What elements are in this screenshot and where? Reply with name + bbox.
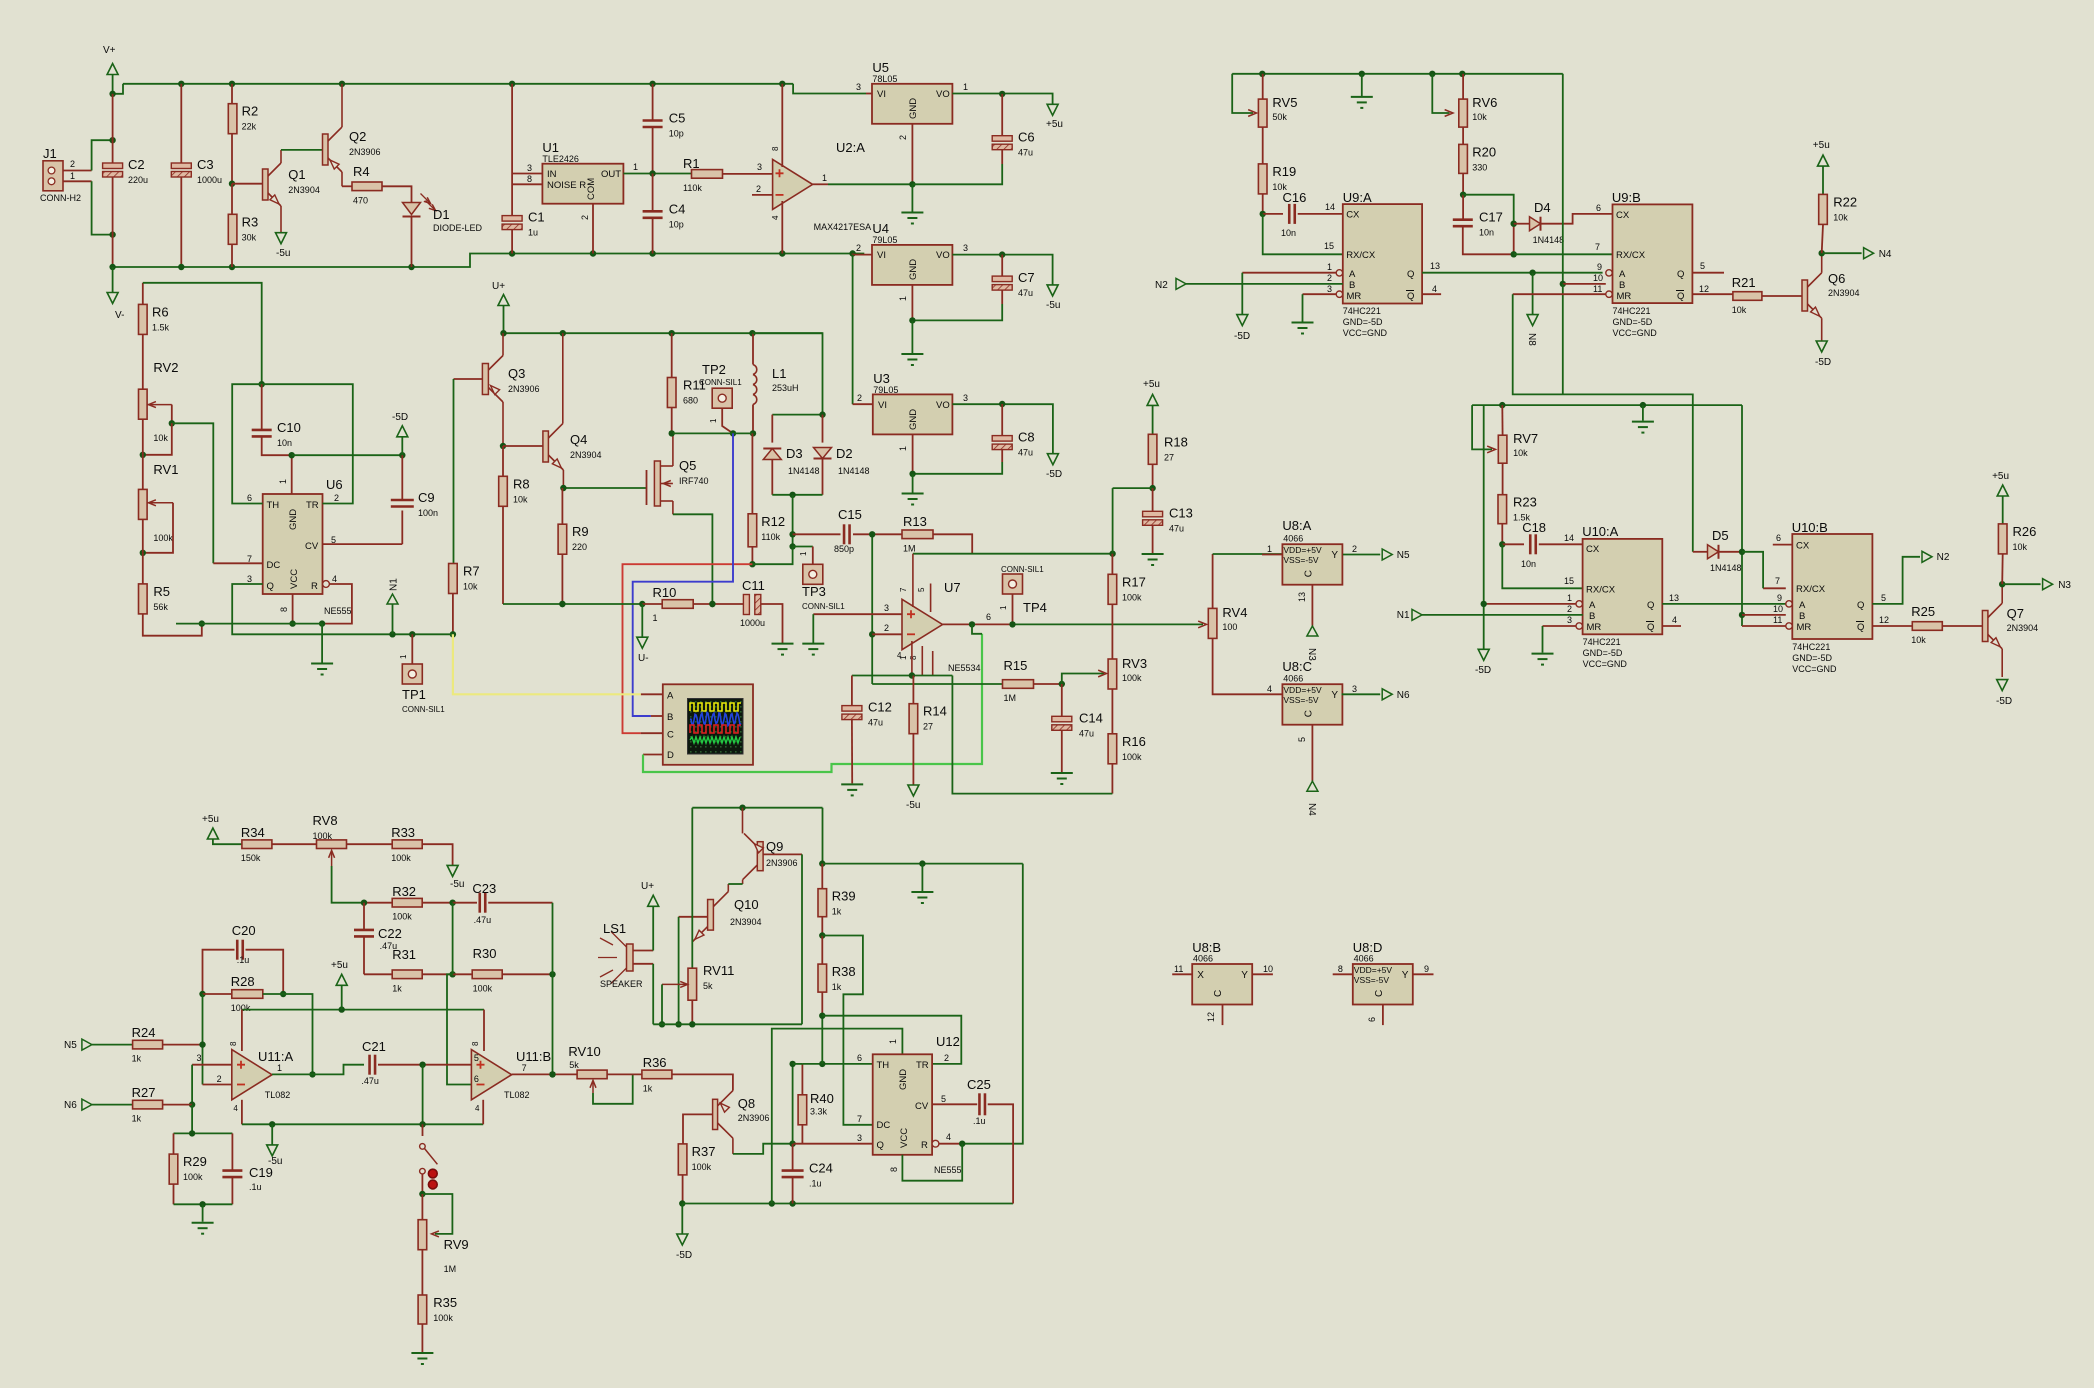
- wire: [952, 255, 1052, 285]
- junction: [361, 900, 367, 906]
- wire: [171, 405, 173, 424]
- svg-text:2: 2: [856, 243, 861, 253]
- junction: [339, 1006, 345, 1012]
- svg-text:CONN-SIL1: CONN-SIL1: [1001, 565, 1044, 574]
- svg-text:-5D: -5D: [392, 412, 408, 423]
- wire: [681, 1204, 683, 1235]
- wire: [813, 183, 828, 185]
- junction: [1259, 71, 1265, 77]
- svg-text:C20: C20: [232, 923, 256, 938]
- wire: [173, 1184, 175, 1204]
- power flag +5u: [202, 814, 219, 839]
- svg-text:1N4148: 1N4148: [838, 466, 870, 476]
- potentiometer RV2: [139, 360, 179, 443]
- svg-text:1: 1: [898, 296, 908, 301]
- label U8:B: [1192, 940, 1221, 955]
- svg-text:C13: C13: [1169, 505, 1193, 520]
- op-amp U7: [902, 580, 981, 673]
- svg-text:TH: TH: [877, 1060, 890, 1071]
- wire: [112, 94, 114, 163]
- svg-text:N5: N5: [64, 1040, 77, 1051]
- wire: [422, 1194, 452, 1234]
- wire: [792, 495, 794, 547]
- svg-text:8: 8: [909, 655, 918, 660]
- svg-text:6: 6: [986, 612, 991, 622]
- capacitor C13: [1143, 505, 1193, 533]
- svg-text:2N3906: 2N3906: [738, 1113, 770, 1123]
- svg-text:R: R: [311, 581, 318, 592]
- wire: [872, 683, 1002, 685]
- junction: [199, 1041, 205, 1047]
- svg-text:R5: R5: [153, 584, 170, 599]
- svg-text:RV4: RV4: [1222, 605, 1247, 620]
- wire: [943, 623, 1013, 625]
- junction: [869, 631, 875, 637]
- svg-text:2: 2: [580, 215, 590, 220]
- wire: [563, 487, 646, 489]
- svg-text:R28: R28: [231, 974, 255, 989]
- svg-text:U7: U7: [944, 580, 961, 595]
- wire: [1414, 973, 1434, 975]
- svg-text:R3: R3: [242, 214, 259, 229]
- svg-text:A: A: [667, 691, 674, 702]
- svg-text:GND=-5D: GND=-5D: [1613, 317, 1653, 327]
- wire: [1152, 525, 1154, 553]
- svg-text:-5D: -5D: [1815, 357, 1831, 368]
- svg-text:R35: R35: [433, 1295, 457, 1310]
- pin number TP4: [999, 605, 1008, 610]
- wire: [1422, 293, 1441, 295]
- junction: [559, 601, 565, 607]
- svg-text:R4: R4: [353, 164, 370, 179]
- junction: [649, 250, 655, 256]
- wire: [342, 185, 352, 187]
- wire: [911, 184, 913, 211]
- junction: [1999, 581, 2005, 587]
- svg-text:N6: N6: [64, 1100, 77, 1111]
- wire: [822, 936, 872, 1125]
- svg-text:C10: C10: [277, 420, 301, 435]
- wire: [203, 993, 232, 995]
- svg-text:3: 3: [963, 393, 968, 403]
- svg-text:RV10: RV10: [568, 1044, 600, 1059]
- power flag +5u: [1992, 471, 2009, 496]
- junction: [199, 991, 205, 997]
- svg-text:2: 2: [1327, 273, 1332, 283]
- junction: [1560, 281, 1566, 287]
- svg-text:N6: N6: [1397, 690, 1410, 701]
- pin numbers U11:A: [197, 1041, 283, 1113]
- junction: [789, 1061, 795, 1067]
- junction: [189, 1130, 195, 1136]
- wire: [453, 902, 477, 904]
- svg-text:10k: 10k: [1833, 212, 1848, 222]
- wire: [2002, 496, 2004, 524]
- power flag +5u: [1046, 104, 1063, 130]
- svg-text:74HC221: 74HC221: [1343, 306, 1381, 316]
- junction: [1819, 250, 1825, 256]
- svg-text:COM: COM: [586, 178, 597, 200]
- wire (blue tag to scope B): [633, 433, 733, 716]
- svg-text:VO: VO: [936, 250, 950, 261]
- wire: [866, 93, 872, 95]
- svg-text:-5D: -5D: [1234, 331, 1250, 342]
- svg-text:15: 15: [1324, 241, 1334, 251]
- junction: [199, 620, 205, 626]
- wire: [1001, 255, 1003, 277]
- wire: [1113, 487, 1153, 489]
- resistor R16: [1108, 734, 1146, 764]
- power flag -5D: [1815, 341, 1831, 368]
- svg-text:4: 4: [946, 1132, 951, 1142]
- svg-text:3: 3: [757, 162, 762, 172]
- junction: [649, 170, 655, 176]
- op-amp U11:A: [232, 1049, 294, 1100]
- svg-text:R25: R25: [1911, 604, 1935, 619]
- capacitor C20: [232, 923, 256, 960]
- svg-text:50k: 50k: [1272, 112, 1287, 122]
- wire: [1298, 213, 1343, 215]
- wire: [1463, 224, 1514, 255]
- wire: [1001, 150, 1003, 164]
- node N5: [64, 1039, 92, 1051]
- junction: [450, 631, 456, 637]
- wire: [1642, 405, 1644, 421]
- resistor R8: [499, 476, 530, 506]
- wire: [502, 506, 504, 604]
- wire: [502, 973, 552, 975]
- potentiometer RV8: [313, 813, 347, 849]
- wire: [112, 75, 114, 94]
- ground: [1632, 422, 1654, 433]
- wire: [693, 603, 743, 605]
- wire: [1742, 625, 1786, 627]
- svg-text:1k: 1k: [832, 982, 842, 992]
- wire: [378, 1064, 471, 1066]
- svg-text:R26: R26: [2013, 524, 2037, 539]
- svg-text:VCC=GND: VCC=GND: [1583, 659, 1628, 669]
- svg-text:47u: 47u: [868, 718, 883, 728]
- pin number TP3: [799, 551, 808, 556]
- test point None: [712, 388, 732, 408]
- wire: [447, 974, 471, 1084]
- resistor R30: [472, 946, 502, 993]
- junction: [1529, 270, 1535, 276]
- resistor R31: [392, 947, 422, 993]
- junction: [769, 1200, 775, 1206]
- svg-text:CV: CV: [915, 1101, 929, 1112]
- svg-text:10k: 10k: [2013, 542, 2028, 552]
- wire: [781, 84, 783, 167]
- wire: [1303, 293, 1337, 295]
- wire: [1542, 626, 1544, 653]
- pin numbers U6: [247, 479, 339, 612]
- junction: [819, 411, 825, 417]
- svg-text:27: 27: [923, 722, 933, 732]
- capacitor C5: [643, 111, 686, 139]
- svg-text:Q10: Q10: [734, 897, 759, 912]
- junction: [749, 561, 755, 567]
- svg-text:Q1: Q1: [288, 167, 305, 182]
- wire: [751, 547, 753, 564]
- svg-text:RV9: RV9: [444, 1237, 469, 1252]
- svg-text:10k: 10k: [153, 433, 168, 443]
- op-amp U11:B: [471, 1049, 551, 1100]
- power flag U-: [637, 637, 649, 664]
- svg-text:VSS=-5V: VSS=-5V: [1283, 555, 1319, 565]
- svg-text:MAX4217ESA: MAX4217ESA: [814, 222, 872, 232]
- svg-text:MR: MR: [1347, 291, 1362, 302]
- svg-text:10k: 10k: [1472, 112, 1487, 122]
- svg-text:47u: 47u: [1079, 728, 1094, 738]
- svg-text:1000u: 1000u: [740, 618, 765, 628]
- wire: [1111, 764, 1113, 794]
- svg-text:C18: C18: [1522, 520, 1546, 535]
- svg-text:MR: MR: [1587, 622, 1602, 633]
- svg-text:7: 7: [1595, 242, 1600, 252]
- svg-text:Q4: Q4: [570, 432, 587, 447]
- svg-text:C24: C24: [809, 1161, 833, 1176]
- connector J1: [40, 146, 81, 203]
- svg-text:15: 15: [1564, 576, 1574, 586]
- wire: [92, 181, 113, 234]
- wire: [191, 1105, 193, 1134]
- wire: [1502, 543, 1524, 545]
- wire: [1232, 73, 1563, 75]
- svg-text:VI: VI: [877, 250, 886, 261]
- junction: [419, 1191, 425, 1197]
- svg-text:1k: 1k: [643, 1083, 653, 1093]
- svg-text:4: 4: [771, 215, 780, 220]
- wire: [1242, 272, 1336, 274]
- svg-text:Q: Q: [1407, 269, 1414, 280]
- svg-text:Y: Y: [1331, 550, 1338, 561]
- wire: [322, 584, 352, 624]
- capacitor C16: [1281, 190, 1306, 238]
- svg-text:VDD=+5V: VDD=+5V: [1354, 965, 1393, 975]
- wire: [1532, 273, 1534, 315]
- svg-text:A: A: [1349, 269, 1356, 280]
- pin numbers U4: [856, 243, 968, 301]
- wire: [1562, 284, 1564, 395]
- wire: [453, 379, 455, 564]
- wire: [142, 419, 144, 455]
- pin numbers U10:A: [1564, 533, 1679, 625]
- wire: [203, 1084, 232, 1086]
- wire: [781, 201, 783, 254]
- power flag V+: [103, 45, 118, 75]
- svg-text:Q: Q: [1407, 291, 1414, 302]
- svg-text:U12: U12: [936, 1034, 960, 1049]
- junction: [1739, 612, 1745, 618]
- svg-text:4066: 4066: [1283, 674, 1303, 684]
- svg-text:N1: N1: [1397, 610, 1410, 621]
- wire: [453, 973, 473, 975]
- label D5val: [1710, 563, 1742, 573]
- svg-text:U9:B: U9:B: [1612, 190, 1641, 205]
- resistor R13: [902, 514, 933, 553]
- svg-text:56k: 56k: [153, 602, 168, 612]
- junction: [909, 672, 915, 678]
- svg-text:CONN-SIL1: CONN-SIL1: [699, 378, 742, 387]
- wire: [821, 1016, 823, 1064]
- wire: [1152, 488, 1154, 511]
- wire: [364, 902, 392, 904]
- svg-text:.1u: .1u: [809, 1179, 822, 1189]
- capacitor C19: [222, 1171, 242, 1178]
- svg-text:10: 10: [1593, 273, 1603, 283]
- wire: [172, 423, 214, 563]
- wiper RV8: [329, 850, 335, 866]
- IC U5: [872, 60, 952, 124]
- svg-text:RV3: RV3: [1122, 656, 1147, 671]
- capacitor C4: [643, 201, 686, 229]
- capacitor C12: [842, 700, 892, 728]
- resistor R29: [169, 1154, 207, 1184]
- svg-text:C14: C14: [1079, 710, 1103, 725]
- svg-text:8: 8: [1338, 964, 1343, 974]
- svg-text:C23: C23: [472, 881, 496, 896]
- svg-text:.1u: .1u: [249, 1182, 262, 1192]
- wire: [871, 534, 873, 684]
- wire: [421, 1174, 423, 1194]
- power flag -5D: [676, 1234, 692, 1261]
- svg-text:4: 4: [475, 1104, 480, 1113]
- wire: [1463, 195, 1514, 224]
- wire: [142, 283, 144, 305]
- wire: [772, 414, 822, 416]
- capacitor C18: [1521, 520, 1546, 569]
- svg-text:A: A: [1799, 600, 1806, 611]
- svg-text:1M: 1M: [1004, 693, 1017, 703]
- svg-text:TP3: TP3: [802, 584, 826, 599]
- junction: [169, 420, 175, 426]
- power flag -5u: [906, 785, 920, 811]
- junction: [789, 1141, 795, 1147]
- wire: [1742, 552, 1763, 589]
- svg-text:2: 2: [884, 623, 889, 633]
- wire: [652, 964, 654, 1025]
- svg-text:+5u: +5u: [202, 814, 219, 825]
- svg-text:R9: R9: [572, 524, 589, 539]
- switch SW1: [420, 1144, 438, 1189]
- svg-text:22k: 22k: [242, 122, 257, 132]
- wire: [1343, 554, 1380, 556]
- capacitor C10: [252, 420, 301, 448]
- wire: [232, 584, 453, 634]
- wire: [202, 1204, 204, 1221]
- node N5: [1382, 549, 1410, 561]
- svg-text:100n: 100n: [418, 508, 438, 518]
- ground: [901, 354, 923, 365]
- analog switch U8:C: [1282, 674, 1342, 725]
- wire: [1422, 614, 1583, 616]
- wire: [1822, 224, 1823, 253]
- wire: [2001, 554, 2004, 584]
- svg-text:Q: Q: [1677, 291, 1684, 302]
- diode D5: [1708, 528, 1729, 559]
- svg-text:47u: 47u: [1018, 288, 1033, 298]
- wire: [853, 403, 873, 405]
- wire: [1062, 674, 1104, 685]
- svg-text:47u: 47u: [1169, 523, 1184, 533]
- svg-text:C22: C22: [378, 926, 402, 941]
- junction: [309, 1071, 315, 1077]
- svg-text:RX/CX: RX/CX: [1346, 250, 1376, 261]
- wire: [142, 334, 144, 389]
- svg-text:D4: D4: [1534, 200, 1551, 215]
- wire: [503, 306, 505, 334]
- wire: [853, 254, 872, 255]
- labels R40: [810, 1091, 834, 1117]
- transistor Q9: [743, 808, 803, 884]
- junction: [549, 1071, 555, 1077]
- svg-text:100k: 100k: [183, 1172, 203, 1182]
- junction: [909, 317, 915, 323]
- wire: [822, 415, 824, 443]
- junction: [1499, 541, 1505, 547]
- svg-text:4066: 4066: [1354, 954, 1374, 964]
- node N3: [2043, 579, 2072, 591]
- ground: [902, 494, 924, 505]
- wire: [191, 1065, 193, 1105]
- svg-text:U5: U5: [872, 60, 889, 75]
- wire: [341, 985, 343, 1009]
- pin numbers U2:A: [756, 146, 827, 220]
- svg-text:VSS=-5V: VSS=-5V: [1283, 695, 1319, 705]
- wire: [1942, 625, 1982, 627]
- wire: [952, 404, 1053, 454]
- svg-text:Y: Y: [1241, 970, 1248, 981]
- svg-text:13: 13: [1297, 592, 1307, 602]
- pin numbers U9:B: [1593, 203, 1709, 294]
- potentiometer RV7: [1498, 431, 1538, 463]
- power flag -5D: [1996, 680, 2012, 707]
- wire: [761, 604, 783, 643]
- wire: [1311, 585, 1313, 626]
- wire: [1462, 74, 1464, 99]
- wire: [411, 634, 413, 664]
- pin numbers U12: [857, 1039, 951, 1172]
- svg-text:8: 8: [471, 1041, 480, 1046]
- wire: [623, 173, 691, 175]
- svg-text:2: 2: [944, 1053, 949, 1063]
- resistor R25: [1911, 604, 1942, 645]
- junction: [819, 860, 825, 866]
- svg-text:6: 6: [1367, 1017, 1377, 1022]
- wire: [262, 436, 292, 455]
- svg-text:R40: R40: [810, 1091, 834, 1106]
- wire: [421, 1194, 423, 1220]
- resistor R15: [1003, 658, 1034, 703]
- svg-text:R23: R23: [1513, 495, 1537, 510]
- ground: [1351, 97, 1373, 108]
- resistor R2: [228, 104, 258, 134]
- wire: [1222, 1005, 1224, 1026]
- junction: [689, 1021, 695, 1027]
- svg-text:N5: N5: [1397, 550, 1410, 561]
- power flag -5u: [267, 1145, 283, 1167]
- potentiometer RV10: [568, 1044, 607, 1079]
- wire: [2002, 583, 2040, 585]
- svg-text:220u: 220u: [128, 175, 148, 185]
- junction: [909, 471, 915, 477]
- wire: [633, 950, 653, 952]
- svg-text:7: 7: [1775, 576, 1780, 586]
- wire: [422, 1065, 424, 1125]
- junction: [140, 452, 146, 458]
- node N1: [387, 578, 400, 604]
